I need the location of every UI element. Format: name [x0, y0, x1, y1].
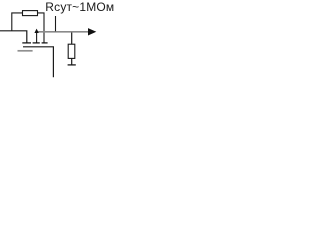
svg-text:Rсут~1МОм: Rсут~1МОм	[45, 0, 114, 14]
